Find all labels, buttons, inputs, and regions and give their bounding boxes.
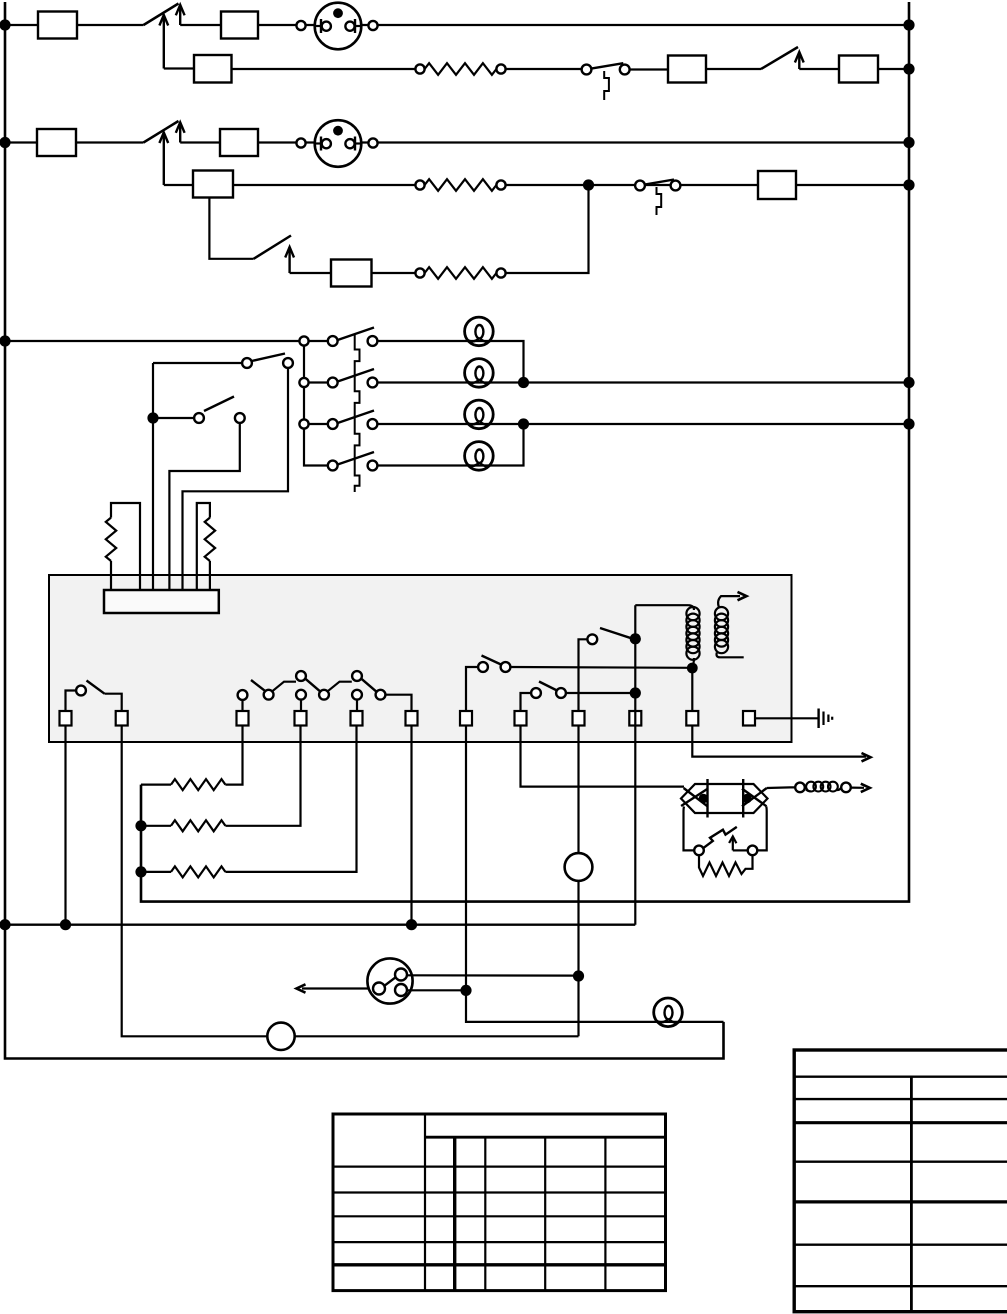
selector S9 bbox=[194, 397, 245, 423]
coil T1 secondary bbox=[715, 596, 744, 657]
switch S1 pole arrow bbox=[159, 15, 168, 69]
wire bbox=[153, 417, 194, 419]
wire bbox=[755, 717, 819, 719]
wire t8 spark feed bbox=[521, 726, 685, 787]
switch S7b bbox=[328, 369, 378, 387]
bank feed wire bbox=[304, 341, 328, 466]
wire bbox=[5, 141, 37, 143]
relay coil K6 bbox=[758, 171, 796, 199]
wire bbox=[878, 68, 909, 70]
vibrator left leg bbox=[684, 807, 695, 851]
connector P2 bbox=[296, 120, 377, 167]
wire bbox=[258, 141, 909, 143]
resistor R2 bbox=[415, 179, 505, 191]
node P3 a bbox=[573, 970, 584, 981]
resistor R4 bbox=[106, 503, 140, 590]
wire bbox=[407, 974, 579, 976]
wire bbox=[209, 199, 253, 259]
output arrow bbox=[862, 753, 871, 761]
wire bbox=[295, 1035, 579, 1037]
wire bbox=[76, 141, 144, 143]
connector P3 bbox=[367, 958, 412, 1003]
title block table bbox=[794, 1050, 1007, 1312]
terminal strip TB1 bbox=[104, 590, 219, 613]
node L1 bank bbox=[0, 335, 11, 346]
node coil junction bbox=[687, 663, 698, 674]
terminal 7 bbox=[460, 711, 472, 726]
connector P1 bbox=[296, 3, 377, 50]
wire bbox=[180, 141, 220, 143]
wire bbox=[378, 423, 910, 425]
vibrator right pin bbox=[742, 779, 751, 818]
switch S4 throw arrow bbox=[176, 122, 185, 142]
relay contact K1c bbox=[466, 656, 692, 712]
wire bbox=[630, 68, 668, 70]
wire bbox=[378, 341, 524, 383]
breaker CB1 bbox=[221, 12, 258, 39]
wire bbox=[506, 68, 587, 70]
node row c junction bbox=[518, 418, 529, 429]
wire bbox=[180, 24, 221, 26]
wire bbox=[169, 423, 239, 590]
relay contact K1a bbox=[66, 681, 122, 712]
node P3 b bbox=[460, 985, 471, 996]
wire bbox=[233, 184, 420, 186]
relay contact K1b chain bbox=[238, 671, 412, 711]
thermal switch S5 bbox=[635, 180, 680, 216]
node R row1 bbox=[903, 19, 914, 30]
node K1e bbox=[630, 687, 641, 698]
right bus L2 bbox=[141, 2, 909, 902]
terminal 2 bbox=[116, 711, 128, 726]
bank tap node c bbox=[299, 419, 327, 428]
node L3 b bbox=[60, 919, 71, 930]
plunger arrow bbox=[738, 592, 747, 600]
antenna arrow bbox=[861, 784, 870, 792]
wire t1 down bbox=[64, 726, 66, 925]
node R row c bbox=[903, 418, 914, 429]
wire bbox=[258, 24, 909, 26]
node row b junction bbox=[518, 377, 529, 388]
lamp DS3 bbox=[465, 400, 494, 429]
terminal 1 bbox=[60, 711, 72, 726]
switch S1 throw arrow bbox=[176, 5, 185, 25]
thermal switch S2 bbox=[582, 63, 630, 100]
node L1 row3 bbox=[0, 137, 11, 148]
wire bbox=[183, 368, 289, 590]
relay coil K7 bbox=[331, 260, 372, 287]
relay contact K1e bbox=[521, 682, 636, 712]
fuse F1 bbox=[38, 12, 77, 39]
wire t9 down bbox=[577, 726, 579, 1037]
terminal 3 bbox=[237, 711, 249, 726]
terminal 11 bbox=[686, 711, 698, 726]
wire bbox=[378, 381, 910, 383]
node R row3 bbox=[903, 137, 914, 148]
node L3 a bbox=[0, 919, 11, 930]
indicator M1 bbox=[267, 1023, 294, 1050]
wire bbox=[164, 184, 193, 186]
switch S4 pole arrow bbox=[159, 133, 168, 186]
wire bbox=[506, 185, 589, 273]
bottom bus L3 bbox=[5, 924, 635, 926]
node sel bbox=[147, 412, 158, 423]
left bus L1 bbox=[5, 2, 724, 1059]
vibrator left pin bbox=[699, 779, 708, 818]
terminal 10 bbox=[629, 711, 641, 726]
node L3 c bbox=[406, 919, 417, 930]
switch S6 blade bbox=[254, 236, 291, 259]
resistor R3 bbox=[415, 267, 505, 279]
vibrator right leg bbox=[757, 807, 766, 851]
wire bbox=[77, 24, 144, 26]
connector arrow bbox=[297, 984, 306, 992]
vibrator enclosure bbox=[681, 784, 768, 813]
wire bbox=[407, 989, 466, 991]
wire bbox=[164, 67, 194, 69]
switch S1 blade bbox=[144, 4, 179, 26]
breaker CB2 bbox=[220, 129, 258, 156]
node R8 tap bbox=[135, 866, 146, 877]
wire t2 down bbox=[122, 726, 268, 1037]
wire bbox=[691, 668, 693, 711]
switch S3 arrow bbox=[795, 52, 804, 69]
fuse F2 bbox=[37, 129, 76, 156]
relay coil K3 bbox=[668, 56, 706, 83]
node L1 row1 bbox=[0, 19, 11, 30]
wire bbox=[153, 362, 242, 364]
switch S3 blade bbox=[761, 47, 798, 69]
wire t5 resistor R8 bbox=[141, 726, 357, 878]
gang linkage bbox=[355, 334, 360, 493]
wire bbox=[5, 340, 304, 342]
breaker arrow bbox=[729, 836, 748, 850]
wire t4 resistor R7 bbox=[141, 726, 301, 832]
relay box K1 enclosure bbox=[49, 575, 792, 742]
wire bbox=[692, 726, 866, 757]
wire bbox=[767, 786, 795, 789]
bank tap node b bbox=[299, 378, 327, 387]
relay coil K2 bbox=[194, 55, 232, 83]
node R row b bbox=[903, 377, 914, 388]
vibrator left points bbox=[681, 788, 708, 807]
RF coil L4 bbox=[795, 782, 851, 793]
terminal 5 bbox=[351, 711, 363, 726]
node A bbox=[583, 179, 594, 190]
wire bbox=[799, 68, 839, 70]
chassis ground bbox=[819, 709, 833, 729]
meter M2 bbox=[565, 853, 593, 881]
wire bbox=[706, 68, 761, 70]
wire bbox=[232, 68, 421, 70]
wire bbox=[302, 987, 373, 989]
node K1d hinge bbox=[630, 633, 641, 644]
coil T1 primary bbox=[635, 605, 699, 666]
switch S4 blade bbox=[144, 121, 179, 143]
lamp DS5 bbox=[654, 998, 683, 1027]
switch S7c bbox=[328, 411, 378, 429]
terminal 9 bbox=[573, 711, 585, 726]
node R row2 bbox=[903, 63, 914, 74]
lamp DS1 bbox=[465, 317, 494, 346]
terminal 6 bbox=[406, 711, 418, 726]
wire bbox=[152, 363, 154, 590]
wire t10 down bbox=[634, 711, 636, 925]
wire bbox=[372, 272, 421, 274]
relay contact K1d bbox=[579, 628, 632, 711]
switch S7a bbox=[328, 328, 378, 346]
buffer resistor R9 bbox=[699, 855, 753, 876]
relay coil K5 bbox=[193, 171, 233, 198]
node R row4 bbox=[903, 179, 914, 190]
resistor R1 bbox=[415, 63, 505, 75]
terminal 12 bbox=[743, 711, 755, 726]
breaker contact right bbox=[748, 846, 758, 856]
breaker blade bbox=[704, 827, 737, 848]
wire bbox=[506, 184, 909, 186]
wire t6 down bbox=[410, 726, 412, 925]
wire t7 down bbox=[466, 726, 724, 1022]
resistor R5 bbox=[197, 503, 215, 590]
wire bbox=[378, 424, 524, 466]
switch S6 arrow bbox=[285, 247, 294, 273]
node R7 tap bbox=[135, 820, 146, 831]
lamp DS4 bbox=[465, 442, 494, 471]
lamp DS2 bbox=[465, 359, 494, 388]
wire t3 resistor R6 bbox=[141, 726, 243, 791]
vibrator right points bbox=[742, 788, 767, 806]
terminal 8 bbox=[515, 711, 527, 726]
data table 1 bbox=[333, 1114, 666, 1291]
terminal 4 bbox=[295, 711, 307, 726]
switch S7d bbox=[328, 452, 378, 470]
relay coil K4 bbox=[839, 56, 878, 83]
wire bbox=[5, 24, 38, 26]
breaker contact left bbox=[694, 846, 704, 856]
selector S8 bbox=[242, 354, 293, 368]
wire bbox=[634, 605, 636, 711]
wire bbox=[851, 786, 864, 788]
wire bbox=[290, 272, 331, 274]
bank tap node a bbox=[299, 336, 327, 345]
